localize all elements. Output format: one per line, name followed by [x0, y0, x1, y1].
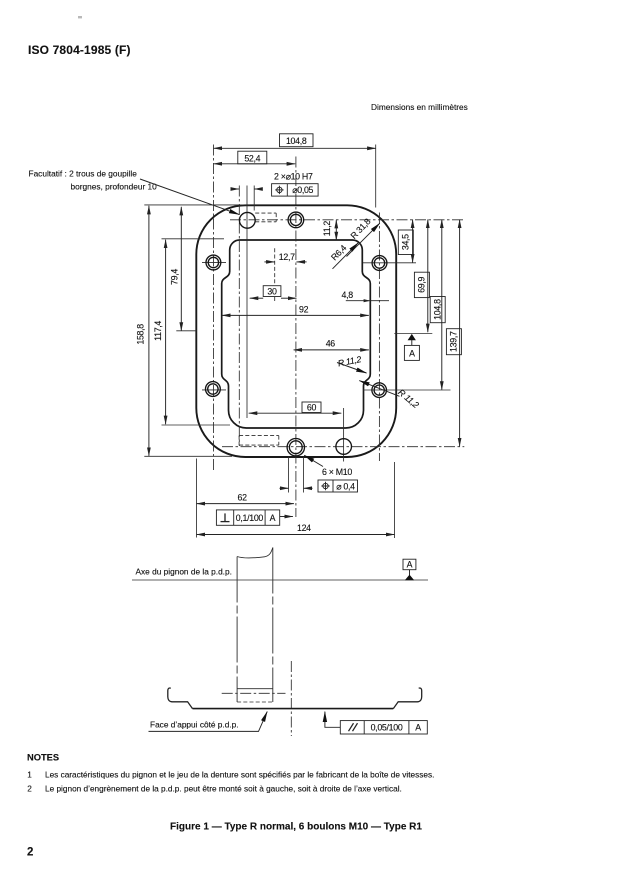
right side dimension 69,9 boxed: [427, 220, 429, 333]
lower bolt row tick left: [202, 389, 226, 391]
svg-text:92: 92: [299, 305, 309, 315]
upper bolt row tick left: [202, 262, 226, 264]
mounting face line: [193, 708, 394, 710]
svg-text:borgnes, profondeur 10: borgnes, profondeur 10: [71, 182, 158, 192]
svg-text:46: 46: [326, 338, 336, 348]
parallelism frame: [340, 721, 427, 734]
svg-text:R 11,2: R 11,2: [396, 387, 421, 410]
dimension 52,4: [214, 163, 296, 165]
top extension line left: [144, 204, 250, 206]
left side dimension 117,4: [165, 240, 167, 425]
bolt hole diameter extension lines: [288, 457, 290, 493]
mid height stub left: [176, 330, 196, 332]
pin hole phi10 bottom-right: [336, 439, 352, 455]
shaft collar centreline: [222, 692, 286, 694]
inner opening outline: [222, 240, 371, 428]
svg-text:2: 2: [27, 847, 33, 859]
dimension 30 boxed: [250, 297, 264, 299]
dimension 12,7: [264, 261, 274, 263]
outer flange outline: [196, 205, 396, 457]
pinion axis line: [132, 579, 428, 581]
faint scan speck top-left: [78, 16, 82, 18]
pin hole diameter arrows: [231, 188, 239, 190]
vertical centreline of flange: [295, 157, 297, 518]
svg-text:60: 60: [307, 403, 317, 413]
svg-text:6 × M10: 6 × M10: [322, 467, 352, 477]
svg-text:A: A: [415, 723, 421, 733]
shaft phantom left side: [236, 557, 238, 703]
leader from parallelism frame: [325, 712, 340, 728]
datum A flag upper view: [408, 334, 416, 340]
svg-text:104,8: 104,8: [432, 299, 442, 320]
svg-text:A: A: [409, 349, 415, 359]
mid height datum line right: [394, 333, 432, 335]
bottom hole row centreline: [222, 446, 464, 448]
svg-text:Face d’appui côté p.d.p.: Face d’appui côté p.d.p.: [150, 720, 239, 730]
optional pin hole hidden rectangle top: [255, 212, 276, 214]
svg-text:Figure 1 — Type R normal, 6 bo: Figure 1 — Type R normal, 6 boulons M10 …: [170, 821, 422, 832]
left side dimension 158,8: [148, 206, 150, 456]
svg-text:124: 124: [297, 523, 311, 533]
perpendicularity frame: [216, 510, 279, 525]
svg-text:Axe du pignon de la p.d.p.: Axe du pignon de la p.d.p.: [136, 567, 232, 577]
right bolt column centreline: [378, 213, 380, 462]
lower view centreline: [290, 661, 292, 736]
shaft end hidden line: [237, 701, 273, 703]
position tolerance frame phi0,05: [272, 184, 319, 196]
shaft collar line: [237, 688, 273, 690]
bottom extension line left: [144, 455, 232, 457]
bolt hole M10 upper-left: [206, 255, 221, 270]
bolt hole diameter arrows: [280, 487, 289, 489]
right side dimension 34,5 boxed: [412, 220, 414, 263]
svg-text:0,05/100: 0,05/100: [371, 723, 403, 733]
pin hole right tangent extension: [253, 186, 255, 211]
dimension 124: [394, 462, 396, 538]
svg-text:139,7: 139,7: [449, 331, 459, 352]
pin hole phi10 top-left: [239, 212, 255, 228]
radius leader R 11,2 inner jog: [337, 363, 367, 374]
svg-text:Le pignon d’engrènement de la: Le pignon d’engrènement de la p.d.p. peu…: [45, 785, 402, 794]
svg-text:104,8: 104,8: [286, 136, 307, 146]
top hole row centreline: [230, 219, 464, 221]
svg-text:Facultatif : 2 trous de goupil: Facultatif : 2 trous de goupille: [29, 169, 138, 179]
svg-text:34,5: 34,5: [401, 234, 411, 250]
svg-text:⌀0,05: ⌀0,05: [292, 185, 313, 195]
svg-text:1: 1: [27, 770, 32, 779]
svg-text:4,8: 4,8: [342, 290, 354, 300]
dimension 62: [196, 459, 198, 538]
upper bolt row extension right: [363, 262, 416, 264]
dimension 4,8: [346, 300, 389, 302]
svg-text:79,4: 79,4: [169, 269, 179, 285]
shaft phantom right side: [272, 548, 274, 703]
bolt hole M10 lower-right: [372, 383, 387, 398]
svg-text:2: 2: [27, 785, 32, 794]
dimension 104,8 top: [214, 147, 376, 149]
datum A flag lower view: [403, 559, 416, 570]
svg-text:ISO 7804-1985 (F): ISO 7804-1985 (F): [28, 43, 131, 57]
radius leader R6,4: [333, 243, 359, 269]
left bolt column centreline: [213, 145, 215, 471]
svg-text:11,2: 11,2: [322, 221, 332, 237]
svg-text:A: A: [407, 560, 413, 570]
bolt hole M10 bottom-centre: [287, 439, 304, 456]
svg-text:A: A: [270, 513, 276, 523]
svg-text:117,4: 117,4: [153, 321, 163, 341]
radius leader R 31,8: [347, 223, 380, 256]
right side dimension 104,8 boxed: [441, 220, 443, 390]
svg-text:69,9: 69,9: [417, 277, 427, 293]
left flange lip profile: [168, 688, 193, 709]
dimension 60 boxed: [249, 412, 342, 414]
leader from face label: [149, 712, 268, 732]
leader from perpendicularity frame: [280, 516, 293, 518]
svg-text:0,1/100: 0,1/100: [236, 513, 264, 523]
right side dimension 139,7 boxed: [459, 220, 461, 447]
dimension 46: [294, 349, 369, 351]
bottom-right pin column extension: [343, 408, 345, 462]
dimension 11,2: [335, 220, 337, 241]
bolt hole M10 top-centre: [288, 212, 304, 228]
svg-text:NOTES: NOTES: [27, 752, 59, 762]
lower bolt row extension right: [363, 389, 451, 391]
svg-text:R6,4: R6,4: [329, 243, 349, 263]
dimension 92: [222, 314, 369, 316]
pin hole left tangent extension: [238, 186, 240, 447]
left side dimension 79,4: [180, 207, 182, 331]
leader to pin hole: [140, 179, 239, 215]
right flange lip profile: [393, 688, 421, 709]
shaft break squiggle: [237, 548, 273, 559]
svg-text:30: 30: [267, 287, 277, 297]
inner top extension line left: [162, 238, 225, 240]
radius leader R11,2 lower scallop: [359, 381, 399, 397]
bolt hole M10 upper-right: [372, 256, 387, 271]
12,7 left extension dashed: [274, 248, 276, 285]
right extension of 104,8 top dimension: [375, 145, 377, 208]
inner bottom extension line left: [162, 424, 231, 426]
pin hole column centreline: [246, 186, 248, 419]
svg-text:52,4: 52,4: [244, 153, 260, 163]
svg-text:Les caractéristiques du pignon: Les caractéristiques du pignon et le jeu…: [45, 770, 434, 779]
svg-text:⌀ 0,4: ⌀ 0,4: [336, 481, 355, 491]
svg-text:Dimensions en millimètres: Dimensions en millimètres: [371, 102, 468, 112]
svg-text:2 ×⌀10 H7: 2 ×⌀10 H7: [274, 172, 313, 182]
svg-text:62: 62: [238, 492, 248, 502]
bolt hole M10 lower-left: [206, 382, 221, 397]
position tolerance frame phi0,4: [318, 480, 358, 492]
svg-text:158,8: 158,8: [136, 324, 146, 345]
svg-text:12,7: 12,7: [279, 252, 295, 262]
svg-text:R 11,2: R 11,2: [337, 354, 362, 368]
optional pin hole hidden rectangle bottom: [239, 435, 279, 437]
leader to bottom-centre bolt: [304, 455, 323, 466]
